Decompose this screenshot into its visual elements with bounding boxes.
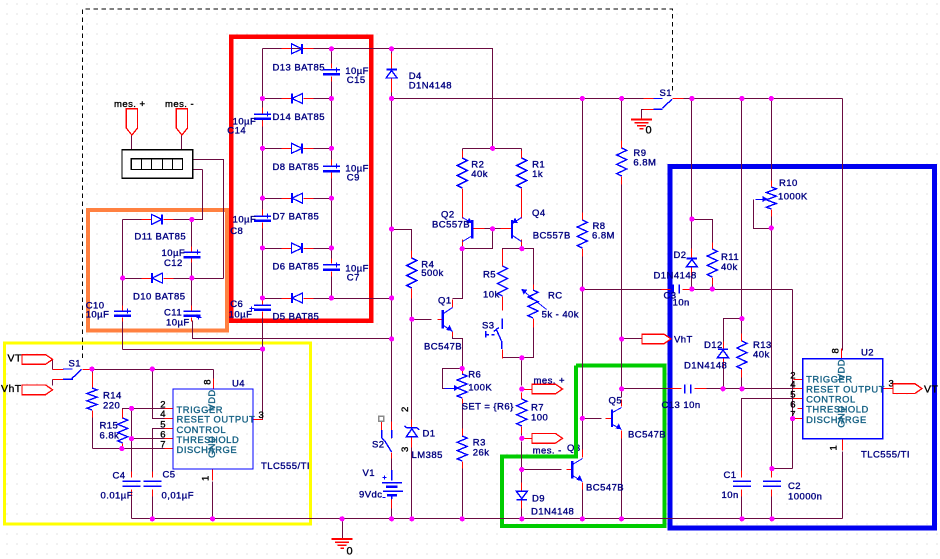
junction U4 vdd tie bbox=[150, 366, 155, 371]
svg-text:1000K: 1000K bbox=[778, 191, 808, 202]
junction rail ground bbox=[340, 516, 345, 521]
switch S1 label bbox=[660, 88, 673, 99]
ground 0 (main) bbox=[332, 539, 353, 558]
wire: Vout link rail y=349 bbox=[123, 349, 263, 351]
junction S3/RC out bbox=[519, 355, 524, 360]
junction D2 bottom bbox=[689, 286, 694, 291]
wire: S3 to RC bottom rail bbox=[503, 326, 534, 358]
svg-text:VT: VT bbox=[924, 383, 938, 395]
svg-text:D6 BAT85: D6 BAT85 bbox=[273, 262, 320, 273]
wire: U4 reset tie bbox=[153, 370, 165, 419]
wire: C5 to ground rail bbox=[152, 491, 154, 519]
junction Q2 base tie bbox=[490, 226, 495, 231]
variable resistor RC (5k-40k) bbox=[522, 289, 580, 321]
junction S1' common bbox=[89, 366, 94, 371]
wire: U4 output riser bbox=[254, 350, 263, 420]
junction rail D2 bbox=[689, 96, 694, 101]
capacitor C13 (10n) bbox=[662, 384, 701, 411]
junction supply R4 bbox=[389, 226, 394, 231]
wire: VhT port stub bbox=[622, 338, 643, 340]
junction ladder R4 bbox=[329, 196, 334, 201]
junction ladder R3 bbox=[329, 146, 334, 151]
transistor Q3 (BC547B) bbox=[567, 443, 624, 493]
svg-text:C8: C8 bbox=[230, 226, 243, 237]
svg-text:D10 BAT85: D10 BAT85 bbox=[133, 292, 185, 303]
svg-text:VDD: VDD bbox=[206, 389, 217, 410]
junction rail R8 bbox=[580, 96, 585, 101]
wire: supply rail y=98.5 bbox=[392, 98, 843, 100]
svg-text:mes. +: mes. + bbox=[534, 376, 565, 387]
group box green edge overlap at Q3 label bbox=[574, 443, 578, 454]
svg-text:D1N4148: D1N4148 bbox=[409, 81, 452, 92]
wire: U2 GND pin to rail bbox=[842, 452, 844, 519]
resistor R3 (26k) bbox=[457, 436, 489, 461]
svg-text:S3: S3 bbox=[482, 321, 495, 332]
wire: R10 bottom bbox=[771, 213, 773, 229]
svg-text:Q5: Q5 bbox=[609, 395, 623, 406]
svg-text:0: 0 bbox=[646, 125, 653, 137]
junction VhT bbox=[619, 336, 624, 341]
resistor R6 pot (100K) bbox=[445, 370, 514, 413]
svg-text:TLC555/TI: TLC555/TI bbox=[861, 449, 910, 460]
capacitor C4 (0.01uF) bbox=[101, 470, 141, 501]
wire: C10 drop bbox=[122, 321, 124, 350]
wire: supply vertical D4/R4/S2/V1 bbox=[391, 49, 393, 519]
junction rail Q3 bbox=[580, 516, 585, 521]
junction C2 top bbox=[769, 466, 774, 471]
wire: D10 row bbox=[123, 278, 224, 280]
wire: U4 VDD riser bbox=[213, 370, 215, 379]
junction U4 threshold bbox=[129, 436, 134, 441]
resistor R10 pot (1000K) bbox=[756, 178, 808, 209]
svg-text:U4: U4 bbox=[232, 379, 245, 390]
wire: orange left rail bbox=[122, 220, 124, 307]
port VT (U2 out) bbox=[893, 383, 938, 395]
wire: R15 to trigger bbox=[123, 409, 165, 418]
wire: trigger/threshold riser x=131.6 bbox=[131, 409, 133, 478]
svg-text:BC547B: BC547B bbox=[424, 341, 462, 352]
svg-text:BC547B: BC547B bbox=[628, 429, 666, 440]
svg-text:GND: GND bbox=[836, 406, 847, 428]
diode D5 (BAT85) bbox=[273, 293, 320, 323]
wire: VhT port rise bbox=[52, 380, 54, 386]
wire: C13/reset rail y=388.8 bbox=[622, 388, 803, 390]
capacitor C1 (10n) bbox=[722, 470, 751, 501]
switch S1' label bbox=[69, 358, 82, 369]
capacitor C15 bbox=[323, 66, 369, 86]
svg-text:R5: R5 bbox=[483, 270, 496, 281]
junction mes- bbox=[519, 436, 524, 441]
wire: C4 to ground rail bbox=[131, 491, 133, 519]
wire: ground stem (main) bbox=[342, 519, 344, 540]
junction ladder R2 bbox=[329, 96, 334, 101]
junction supply C11 bbox=[389, 336, 394, 341]
wire: R10 wiper loop bbox=[754, 200, 772, 229]
group box blue (U2 timer) bbox=[670, 167, 935, 529]
svg-text:S2: S2 bbox=[372, 440, 385, 451]
junction rail R3 bbox=[460, 516, 465, 521]
transistor Q2 (BC557B) bbox=[432, 209, 473, 241]
resistor R5 (10k) bbox=[483, 266, 508, 300]
svg-text:8: 8 bbox=[203, 379, 214, 385]
wire: R6 to R3 to ground rail bbox=[462, 403, 464, 519]
svg-text:VhT: VhT bbox=[674, 334, 693, 345]
wire: C1 to ground rail bbox=[741, 491, 743, 519]
svg-text:Q3: Q3 bbox=[567, 443, 581, 454]
diode D2 (D1N4148) bbox=[654, 250, 698, 281]
wire: C11 link bbox=[191, 279, 193, 307]
op-amp/timer U4 (TLC555/TI) bbox=[160, 379, 310, 482]
junction mes+ bbox=[519, 386, 524, 391]
wire: Q1 collector to mirror bbox=[453, 249, 463, 299]
svg-text:1k: 1k bbox=[532, 169, 543, 180]
svg-text:D13 BAT85: D13 BAT85 bbox=[273, 62, 325, 73]
wire: C11 to supply bbox=[193, 321, 392, 339]
wire: mes node through R7 bbox=[521, 393, 523, 436]
wire: Q4 collector node to RC bbox=[522, 244, 534, 285]
junction R13 bottom bbox=[739, 386, 744, 391]
junction ladder L5 bbox=[260, 245, 265, 250]
resistor R7 (100) bbox=[517, 399, 548, 426]
svg-text:RESET OUTPUT: RESET OUTPUT bbox=[177, 414, 256, 425]
junction ladder L4 bbox=[260, 196, 265, 201]
junction rail V1 bbox=[389, 516, 394, 521]
wire: C12 link bbox=[191, 220, 193, 279]
wire: trigger riser link to C2 node bbox=[772, 468, 793, 470]
wire: S3 node down to mirror out bbox=[521, 358, 523, 386]
svg-text:9Vdc: 9Vdc bbox=[359, 490, 382, 501]
svg-text:C9: C9 bbox=[347, 172, 360, 183]
wire: R14/discharge wire bbox=[93, 448, 174, 450]
svg-text:6.8M: 6.8M bbox=[633, 158, 656, 169]
wire: ladder left rail to node Vout dot bbox=[262, 312, 264, 350]
svg-text:V1: V1 bbox=[363, 468, 376, 479]
svg-text:100: 100 bbox=[531, 412, 548, 423]
capacitor C11 bbox=[164, 307, 202, 328]
resistor R4 (500k) bbox=[407, 258, 444, 288]
switch S1 (sample) blue blade bbox=[654, 99, 673, 110]
port VT (to S1') bbox=[8, 353, 53, 365]
junction U4 trigger bbox=[129, 406, 134, 411]
wire: R10 node down to C2 bbox=[771, 229, 773, 478]
svg-text:0.01µF: 0.01µF bbox=[101, 490, 133, 501]
svg-text:D1: D1 bbox=[423, 428, 436, 439]
svg-text:R6: R6 bbox=[468, 370, 481, 381]
wire: Q5 base stub bbox=[583, 418, 602, 420]
switch S1' blue blade bbox=[63, 369, 82, 379]
pin stubs (red) bbox=[53, 49, 893, 509]
wire: Q1 emitter to R6 bbox=[453, 335, 463, 369]
junction rail C1 bbox=[739, 516, 744, 521]
junction rail R10 bbox=[769, 96, 774, 101]
svg-text:10000n: 10000n bbox=[788, 492, 822, 503]
svg-text:RESET OUTPUT: RESET OUTPUT bbox=[806, 383, 885, 394]
svg-text:40k: 40k bbox=[721, 262, 738, 273]
wire: R13 to reset rail bbox=[741, 319, 743, 389]
wire: R13/D12 branch from supply bbox=[741, 99, 743, 319]
junction ladder L3 bbox=[260, 146, 265, 151]
junction R6 top bbox=[460, 366, 465, 371]
capacitor C9 bbox=[323, 164, 369, 184]
svg-text:D12: D12 bbox=[704, 340, 723, 351]
resistor R15 (6.8k) bbox=[100, 418, 128, 443]
port VhT (mid) bbox=[642, 334, 693, 345]
svg-text:220: 220 bbox=[103, 400, 120, 411]
wire: R8 branch bbox=[582, 99, 584, 290]
junction rail C5 bbox=[150, 516, 155, 521]
dashed feedback outline bbox=[83, 9, 673, 358]
wire: Q4 collector node to R5 bbox=[503, 249, 522, 266]
capacitor C7 bbox=[323, 263, 369, 284]
svg-text:D11 BAT85: D11 BAT85 bbox=[134, 232, 186, 243]
port mes.- (sense) bbox=[532, 434, 563, 457]
resistor R14 (220) bbox=[87, 388, 122, 411]
junction R11 bottom bbox=[710, 286, 715, 291]
resistor R2 (40k) bbox=[457, 158, 488, 188]
junction rail Q5 bbox=[619, 516, 624, 521]
svg-text:D14 BAT85: D14 BAT85 bbox=[273, 112, 325, 123]
wire: U2 output to VT port bbox=[883, 388, 894, 390]
wire: D11 node to display low terminal bbox=[192, 170, 203, 220]
diode D7 (BAT85) bbox=[273, 193, 320, 223]
port VhT (to S1') bbox=[1, 383, 53, 395]
wire: C6 drop to Vout rail bbox=[262, 312, 264, 350]
wire: S1p common to U4 area bbox=[93, 369, 214, 371]
wire: D11 row bbox=[123, 219, 192, 221]
svg-text:D5 BAT85: D5 BAT85 bbox=[273, 312, 320, 323]
svg-text:S1: S1 bbox=[69, 358, 82, 369]
wire: R1 body line bbox=[521, 149, 523, 157]
capacitor C2 (10000n) bbox=[763, 481, 823, 503]
svg-text:D8 BAT85: D8 BAT85 bbox=[273, 162, 320, 173]
wire: D5 row out to supply rail bbox=[332, 298, 392, 300]
svg-text:3: 3 bbox=[400, 446, 411, 452]
svg-text:26k: 26k bbox=[473, 448, 490, 459]
wire: Q3 base stub bbox=[522, 469, 562, 471]
capacitor C8 bbox=[230, 214, 271, 238]
svg-text:C7: C7 bbox=[347, 272, 360, 283]
junction R8 bottom bbox=[580, 286, 585, 291]
svg-text:VDD: VDD bbox=[836, 359, 847, 380]
svg-text:10µF: 10µF bbox=[229, 309, 253, 320]
svg-text:10n: 10n bbox=[722, 490, 739, 501]
svg-text:1: 1 bbox=[829, 445, 840, 451]
junction U2 discharge bbox=[790, 416, 795, 421]
svg-text:Q1: Q1 bbox=[438, 295, 452, 306]
capacitor C10 bbox=[86, 300, 132, 320]
wire: Q1 base stub bbox=[412, 319, 432, 321]
junction orange left bbox=[120, 276, 125, 281]
diode D12 (D1N4148) bbox=[684, 340, 729, 372]
svg-text:BC547B: BC547B bbox=[586, 482, 624, 493]
svg-text:U2: U2 bbox=[861, 348, 874, 359]
svg-text:Q4: Q4 bbox=[532, 208, 546, 219]
wire: S1 ground elbow bbox=[642, 110, 644, 120]
wire: D2 to R11 link bbox=[692, 220, 713, 246]
svg-text:S1: S1 bbox=[660, 88, 673, 99]
svg-text:40k: 40k bbox=[753, 350, 770, 361]
svg-text:R10: R10 bbox=[779, 178, 798, 189]
wire: discharge stub U2 pin7 bbox=[793, 418, 794, 420]
wire: V1 negative to rail bbox=[391, 498, 393, 519]
wire: threshold stub bbox=[132, 438, 165, 440]
junction D2 top bbox=[689, 216, 694, 221]
wire: mes- node down to Q3 base/D9 bbox=[521, 442, 523, 519]
diode D14 (BAT85) bbox=[273, 94, 325, 124]
junction ladder L6 bbox=[260, 295, 265, 300]
resistor R1 (1k) bbox=[517, 158, 545, 188]
svg-text:10n: 10n bbox=[673, 298, 690, 309]
wire: ground rail bbox=[132, 518, 843, 520]
junction R10 bottom bbox=[769, 225, 774, 230]
svg-text:0,01µF: 0,01µF bbox=[162, 490, 194, 501]
junction D11 out bbox=[189, 217, 194, 222]
junction Q3 base bbox=[519, 467, 524, 472]
svg-text:mes. -: mes. - bbox=[533, 446, 562, 457]
junction rail R9 bbox=[619, 96, 624, 101]
port mes.+ (top) bbox=[114, 99, 145, 135]
resistor R13 (40k) bbox=[737, 340, 772, 369]
svg-text:0: 0 bbox=[347, 546, 354, 558]
group box orange (D10/D11 pump) bbox=[88, 210, 227, 331]
capacitor C14 bbox=[227, 112, 271, 137]
junction rail D9 bbox=[519, 516, 524, 521]
wire: R6 wiper loop bbox=[443, 369, 463, 389]
svg-text:40k: 40k bbox=[471, 169, 488, 180]
wire: Q5 emitter to rail bbox=[621, 439, 623, 519]
svg-text:mes. +: mes. + bbox=[114, 99, 145, 110]
svg-text:C13 10n: C13 10n bbox=[662, 400, 701, 411]
wire: top rail D13 output to R1/R2 bbox=[263, 49, 493, 149]
transistor Q4 (BC557B) bbox=[512, 208, 571, 242]
junction Vout rail bbox=[260, 346, 265, 351]
junction Q4 collector bbox=[519, 246, 524, 251]
junction rail C2 bbox=[769, 516, 774, 521]
group box green (Q3/Q5 clamp) bbox=[502, 366, 665, 527]
svg-text:D2: D2 bbox=[674, 250, 687, 261]
wire: R9 branch bbox=[621, 99, 623, 389]
svg-text:8: 8 bbox=[831, 348, 842, 354]
capacitor C3 (10n) bbox=[664, 285, 690, 309]
junction D12 bottom bbox=[720, 386, 725, 391]
wire: trigger/discharge riser x=792.6 bbox=[792, 290, 794, 469]
transistor Q1 (BC547B) bbox=[424, 295, 462, 352]
svg-text:SET = {R6}: SET = {R6} bbox=[462, 401, 514, 412]
svg-text:10k: 10k bbox=[483, 289, 500, 300]
svg-text:D1N4148: D1N4148 bbox=[531, 507, 574, 518]
capacitor C6 bbox=[229, 299, 271, 320]
junction Q5 base bbox=[580, 416, 585, 421]
svg-text:C4: C4 bbox=[113, 470, 126, 481]
wire: R4 branch bbox=[392, 230, 412, 256]
diode D9 (D1N4148) bbox=[516, 491, 574, 517]
svg-text:BC557B: BC557B bbox=[533, 230, 571, 241]
junction R15 bottom bbox=[119, 446, 124, 451]
switch S3 blue blade bbox=[486, 318, 503, 349]
svg-text:C2: C2 bbox=[788, 481, 801, 492]
diode D8 (BAT85) bbox=[273, 143, 320, 173]
resistor R11 (40k) bbox=[707, 249, 739, 277]
wire: Q2 collector to base tie bbox=[463, 229, 493, 249]
svg-text:10µF: 10µF bbox=[233, 215, 257, 226]
junction Q1 base bbox=[409, 317, 414, 322]
ground 0 (S1) bbox=[631, 120, 652, 137]
svg-text:BC557B: BC557B bbox=[432, 220, 470, 231]
wire: R4 to Q1 base / D1 / ground rail bbox=[411, 292, 413, 519]
transistor Q5 (BC547B) bbox=[609, 395, 667, 440]
junction Q2 collector bbox=[460, 246, 465, 251]
wire: U4 GND pin to rail bbox=[212, 482, 214, 519]
svg-text:C5: C5 bbox=[163, 470, 176, 481]
junction D10 out bbox=[189, 276, 194, 281]
wire: R2 body line bbox=[462, 149, 464, 157]
switch S2 open-terminal square bbox=[379, 416, 384, 421]
capacitor C12 bbox=[162, 248, 201, 269]
wire: ladder diode rows bbox=[263, 49, 332, 299]
wire: ladder right rail bbox=[331, 49, 333, 299]
svg-text:10µF: 10µF bbox=[166, 317, 190, 328]
switch S2 label bbox=[372, 440, 385, 451]
wire: Q5 collector node bbox=[621, 389, 623, 398]
junction D4 top bbox=[389, 46, 394, 51]
junction ladder R5 bbox=[329, 245, 334, 250]
svg-text:TLC555/TI: TLC555/TI bbox=[261, 461, 310, 472]
svg-text:D7 BAT85: D7 BAT85 bbox=[273, 212, 320, 223]
wire: mes+ display stub bbox=[131, 136, 133, 150]
wire: R11 to rail bbox=[712, 282, 714, 290]
svg-text:10µF: 10µF bbox=[86, 310, 110, 321]
diode D6 (BAT85) bbox=[273, 243, 320, 273]
wire: mes- display stub bbox=[181, 136, 183, 150]
junction ladder D13 right bbox=[329, 46, 334, 51]
switch S2 blue blade bbox=[382, 430, 392, 452]
wire: D12 link bbox=[724, 319, 742, 346]
svg-text:2: 2 bbox=[400, 406, 411, 412]
svg-text:C14: C14 bbox=[227, 125, 246, 136]
diode D11 (BAT85) bbox=[134, 214, 186, 242]
svg-text:1: 1 bbox=[201, 475, 212, 481]
capacitor C5 (0.01uF) bbox=[143, 470, 194, 502]
svg-text:C15: C15 bbox=[347, 75, 366, 86]
wire: R8 low segment to Q5 base node bbox=[582, 290, 584, 419]
wire: display lower terminal bbox=[193, 169, 203, 171]
group box red (diode ladder) bbox=[231, 37, 371, 321]
diode D10 (BAT85) bbox=[133, 273, 185, 303]
svg-text:mes. -: mes. - bbox=[165, 99, 194, 110]
svg-text:C1: C1 bbox=[724, 470, 737, 481]
display / meter block bbox=[122, 150, 193, 179]
junction S1 right bbox=[689, 96, 694, 101]
wire: R14 branch bbox=[92, 370, 94, 449]
switch S3 label bbox=[482, 321, 495, 332]
junction rail D1 bbox=[409, 516, 414, 521]
svg-text:GND: GND bbox=[206, 436, 217, 458]
svg-text:D9: D9 bbox=[532, 494, 545, 505]
wire: C1 control branch bbox=[742, 399, 803, 478]
svg-text:5k - 40k: 5k - 40k bbox=[542, 310, 579, 321]
junction R1R2 top bbox=[490, 146, 495, 151]
wire: R15 top link bbox=[122, 445, 124, 449]
wire: threshold rail y=289 bbox=[583, 289, 793, 291]
junction ladder L2 bbox=[260, 96, 265, 101]
wire: C5 control branch bbox=[153, 429, 165, 478]
battery V1 (9Vdc) bbox=[359, 468, 403, 501]
junction rail U4 gnd bbox=[210, 516, 215, 521]
diode D1 (LM385) bbox=[400, 406, 443, 461]
junction ladder R6 bbox=[329, 295, 334, 300]
wire: R10 branch bbox=[771, 99, 773, 184]
svg-text:D1N4148: D1N4148 bbox=[654, 270, 697, 281]
